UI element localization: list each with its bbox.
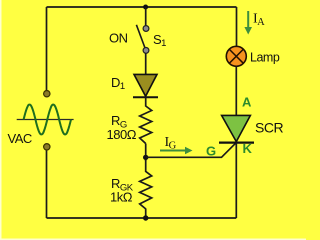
svg-text:ON: ON: [109, 31, 128, 46]
svg-text:Lamp: Lamp: [250, 50, 280, 64]
wire gate to SCR: [146, 143, 236, 158]
node VAC + terminal: [44, 91, 50, 97]
wire diode to RG: [145, 97, 147, 107]
node gate junction: [143, 155, 148, 160]
wire right rail (top to lamp): [236, 7, 238, 47]
switch S1 bottom terminal: [143, 48, 149, 54]
source VAC axis line: [17, 119, 74, 121]
current IG arrow: [160, 150, 186, 152]
wire bottom rail: [47, 217, 237, 219]
switch S1 blade: [136, 25, 145, 49]
wire lamp to SCR anode: [235, 67, 237, 117]
switch S1 top terminal: [143, 26, 149, 32]
diode D1 cathode bar: [133, 96, 158, 98]
svg-text:180Ω: 180Ω: [107, 127, 137, 142]
svg-text:A: A: [242, 95, 252, 110]
wire RGK to bottom rail: [145, 209, 147, 219]
svg-text:G: G: [206, 143, 216, 158]
svg-text:K: K: [243, 141, 253, 156]
wire switch to diode: [145, 53, 147, 75]
resistor RG zigzag: [140, 106, 152, 144]
SCR cathode bar: [219, 142, 254, 144]
wire RG to gate junction: [145, 144, 147, 162]
current IA arrow: [247, 11, 249, 28]
wire junction to RGK: [145, 160, 147, 172]
svg-text:1kΩ: 1kΩ: [110, 190, 133, 205]
wire top rail: [47, 6, 237, 8]
source VAC sine wave: [24, 105, 71, 135]
node top junction: [143, 5, 148, 10]
lamp: [226, 46, 246, 66]
wire left rail lower: [46, 150, 48, 218]
wire left rail upper: [46, 7, 48, 91]
node bottom junction: [143, 215, 148, 220]
SCR triangle: [222, 115, 251, 141]
resistor RGK zigzag: [140, 171, 152, 209]
svg-text:SCR: SCR: [255, 120, 283, 136]
wire cathode to bottom rail: [235, 143, 237, 218]
node VAC - terminal: [44, 144, 50, 150]
wire junction to switch: [145, 7, 147, 27]
svg-text:VAC: VAC: [8, 131, 32, 146]
diode D1 triangle: [134, 74, 157, 96]
